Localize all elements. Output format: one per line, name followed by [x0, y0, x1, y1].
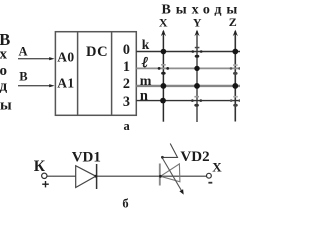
- svg-text:ы: ы: [0, 98, 12, 114]
- svg-text:х: х: [0, 47, 8, 63]
- svg-text:VD2: VD2: [180, 149, 209, 165]
- svg-text:k: k: [142, 37, 150, 52]
- svg-text:Z: Z: [229, 15, 237, 29]
- svg-text:К: К: [34, 158, 46, 175]
- svg-text:д: д: [0, 78, 8, 94]
- svg-text:DC: DC: [86, 44, 108, 60]
- svg-text:ℓ: ℓ: [142, 55, 148, 71]
- svg-text:3: 3: [123, 94, 130, 110]
- svg-text:А: А: [18, 45, 27, 59]
- svg-text:о: о: [0, 63, 7, 79]
- svg-text:2: 2: [123, 76, 130, 92]
- svg-text:0: 0: [123, 42, 130, 58]
- svg-text:а: а: [123, 119, 130, 133]
- svg-text:В: В: [19, 70, 27, 84]
- svg-text:A0: A0: [57, 50, 74, 65]
- svg-text:VD1: VD1: [72, 150, 101, 166]
- svg-text:X: X: [159, 15, 168, 29]
- svg-text:Y: Y: [193, 15, 202, 29]
- svg-text:X: X: [212, 159, 222, 174]
- svg-text:m: m: [140, 74, 152, 89]
- svg-text:A1: A1: [57, 76, 74, 91]
- svg-text:б: б: [122, 197, 128, 210]
- svg-text:n: n: [140, 88, 148, 104]
- svg-text:1: 1: [123, 59, 130, 75]
